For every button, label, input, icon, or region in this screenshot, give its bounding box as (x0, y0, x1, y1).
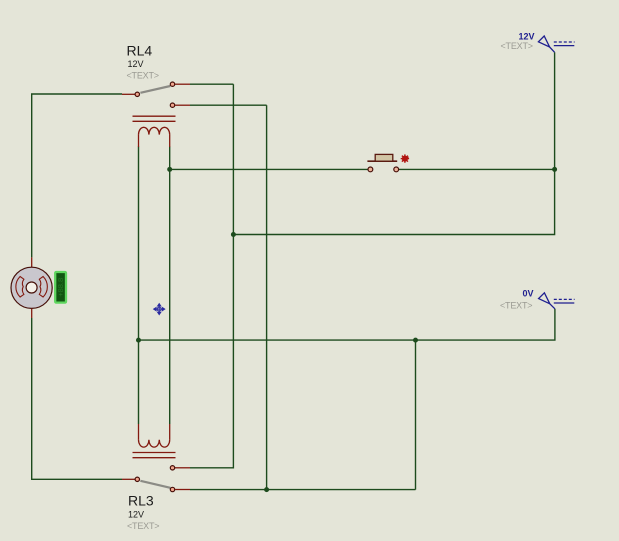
svg-text:<TEXT>: <TEXT> (501, 41, 533, 51)
wire net: left rail bottom (motor to RL3 common) (32, 318, 122, 479)
relay RL4 switch: NO contact pin wire (175, 83, 190, 85)
relay RL4 switch: NO contact circle (170, 82, 174, 86)
relay RL4 coil left pin (138, 135, 140, 147)
motor M1 bottom pin (31, 309, 33, 318)
relay RL3 coil right pin (169, 424, 171, 440)
svg-text:+88.8: +88.8 (56, 278, 65, 297)
motor M1 right brush arc (39, 277, 47, 298)
wire: RL4 NC contact to vertical bus x=266 (190, 104, 267, 106)
push button cap (375, 154, 393, 161)
junction dot at coil left leg / 0V row (136, 338, 141, 343)
motor RPM display (55, 272, 66, 303)
relay RL4 switch: NC contact circle (170, 103, 174, 107)
svg-text:12V: 12V (128, 59, 144, 69)
component origin marker (blue cross) (154, 304, 165, 315)
junction dot at 12V rail / button row (552, 167, 557, 172)
wire: 0V row from coil left leg to 0V terminal (139, 309, 555, 340)
wire: vertical bus x=233 from RL4 NO down to RL3 upper contact (190, 84, 233, 468)
relay RL3 coil left pin (138, 424, 140, 440)
relay RL3 switch: upper contact pin wire (175, 467, 190, 469)
svg-text:12V: 12V (128, 510, 144, 520)
motor M1 top pin (31, 257, 33, 267)
wire: coil right leg (green section) (169, 147, 171, 425)
wire: RL4 NO contact to vertical bus x=233 (190, 83, 233, 85)
wire: button right pin to 12V rail (399, 168, 555, 170)
relay RL4 switch: common pin wire (122, 93, 135, 95)
motor M1 body (11, 267, 52, 308)
relay RL3 coil winding (139, 440, 170, 447)
motor M1 left brush arc (16, 277, 24, 298)
wire: vertical x=415 from 0V row down to RL3 contact row (415, 340, 417, 490)
relay RL3 coil core lines (133, 453, 176, 458)
push button right pin circle (394, 167, 399, 172)
svg-text:<TEXT>: <TEXT> (127, 521, 159, 531)
junction dot at x=415 / 0V row (413, 338, 418, 343)
svg-text:0V: 0V (523, 289, 534, 299)
relay RL4 coil winding (139, 127, 170, 134)
relay RL4 switch: gray armature bar (140, 86, 170, 93)
junction dot at x=233 bus / 12V horizontal (231, 232, 236, 237)
power terminal 0V symbol (539, 293, 575, 309)
relay RL4 coil right pin (169, 135, 171, 147)
wire: 12V terminal drop and horizontal to bus junction (233, 52, 554, 234)
push button actuator bar (367, 160, 397, 162)
push button left pin circle (368, 167, 373, 172)
relay RL3 switch: common pin circle (135, 477, 139, 481)
relay RL4 switch: NC contact pin wire (175, 104, 190, 106)
svg-text:<TEXT>: <TEXT> (500, 301, 532, 311)
svg-text:RL3: RL3 (128, 493, 154, 509)
relay RL4 switch: common pin circle (135, 92, 139, 96)
junction dot at x=266 bus / RL3 contact row (264, 487, 269, 492)
wire: vertical bus x=266 from RL4 NC down to RL3 lower contact row (266, 105, 268, 489)
svg-text:<TEXT>: <TEXT> (127, 71, 159, 81)
svg-text:12V: 12V (519, 32, 535, 42)
relay RL3 switch: common pin wire (122, 478, 135, 480)
junction dot at coil right leg / button row (167, 167, 172, 172)
relay RL3 switch: lower contact pin wire (175, 489, 190, 491)
wire net: left rail top (motor to RL4 common) (32, 94, 122, 257)
power terminal 12V symbol (538, 36, 574, 52)
push button red actuation star (405, 155, 409, 160)
relay RL4 coil core lines (133, 116, 176, 121)
relay RL3 switch: upper contact circle (170, 466, 174, 470)
motor M1 shaft circle (26, 282, 37, 293)
svg-text:RL4: RL4 (127, 43, 153, 59)
wire: coil left leg (green section) (138, 147, 140, 425)
relay RL3 switch: lower contact circle (170, 487, 174, 491)
relay RL3 switch: gray armature bar (140, 481, 170, 488)
wire: coil junction to button left pin (170, 168, 368, 170)
wire: RL3 lower contact row (190, 489, 416, 491)
